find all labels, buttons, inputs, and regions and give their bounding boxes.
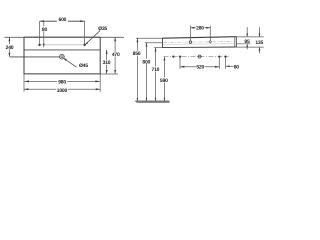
floor line: [135, 100, 169, 102]
dimension 850 text: [132, 51, 140, 56]
inner shelf line: [24, 49, 100, 51]
dimension 980 text: [57, 79, 67, 84]
dimension 95 line: [246, 27, 248, 37]
slab top edge: [163, 37, 237, 39]
top edge left extension: [5, 36, 25, 38]
fixing hole outer right: [224, 56, 226, 58]
hole diamond (front): [209, 41, 211, 44]
floor hatch line: [137, 102, 170, 104]
dimension 80 right ext: [225, 58, 227, 69]
dimension 1000 line: [24, 88, 100, 90]
leader Ø35: [85, 30, 100, 44]
hole centerline dashed: [164, 41, 235, 42]
svg-text:Ø45: Ø45: [79, 63, 88, 69]
basin right edge: [99, 37, 101, 74]
dimension 710 text: [151, 67, 159, 72]
dimension 280 left ext: [190, 26, 192, 41]
dimension 600 line: [40, 20, 85, 22]
fixing hole inner left: [179, 56, 181, 58]
dimension 240 text: [5, 44, 14, 49]
dimension 80 line: [43, 21, 45, 47]
top edge right extension: [100, 36, 124, 38]
dimension 1000 text: [56, 87, 68, 92]
basin top edge with extension lines: [24, 36, 100, 38]
dimension 310 line: [106, 50, 108, 74]
slab right edge: [235, 36, 237, 47]
dimension 600 text: [57, 17, 68, 22]
svg-text:520: 520: [196, 65, 204, 71]
drain circle: [60, 54, 65, 59]
tap hole centerline: [38, 44, 86, 46]
dimension 590 text: [160, 78, 168, 83]
dimension 590 line: [163, 57, 165, 102]
dimension 80 line + outside arrow: [226, 65, 234, 67]
dimension 800 line: [146, 43, 148, 101]
dimension 980 line: [25, 80, 100, 82]
bottom edge right extension: [100, 73, 118, 75]
ext line 95/135 top: [236, 36, 263, 38]
svg-text:1000: 1000: [57, 88, 68, 94]
tap hole left drop line: [39, 21, 41, 43]
drain symbol front: [198, 55, 201, 58]
dimension 520 left ext: [179, 58, 181, 69]
svg-text:710: 710: [152, 67, 160, 73]
dimension 280 text: [196, 25, 205, 30]
basin bottom edge with extension: [24, 73, 100, 75]
drain level line: [10, 56, 60, 58]
svg-text:280: 280: [196, 26, 204, 32]
svg-text:135: 135: [255, 40, 263, 46]
dimension 520 line: [180, 66, 219, 68]
tap hole right diamond: [83, 43, 86, 46]
leader Ø45: [64, 59, 76, 67]
dimension 135 line: [259, 27, 261, 37]
dimension 980 right ext: [99, 74, 101, 92]
fixing hole outer left: [172, 56, 174, 58]
ext line 135 bottom: [236, 46, 263, 48]
tap hole left diamond: [38, 43, 41, 46]
ext 850: [136, 37, 163, 39]
dimension 80 text: [42, 26, 48, 31]
svg-text:850: 850: [133, 51, 141, 57]
svg-text:310: 310: [103, 60, 111, 66]
svg-text:Ø35: Ø35: [98, 26, 107, 32]
svg-text:470: 470: [112, 52, 120, 58]
svg-text:590: 590: [160, 78, 168, 84]
dimension 980 left ext: [23, 74, 25, 92]
ext 710: [154, 47, 163, 49]
slab inner right edge: [234, 37, 236, 47]
dimension 520 right ext: [218, 58, 220, 69]
inner faint line: [163, 43, 235, 46]
slab left edge: [162, 38, 164, 48]
dimension 800 text: [142, 59, 150, 64]
dimension 470 line: [114, 37, 116, 74]
svg-text:80: 80: [234, 64, 240, 70]
fixing hole inner right: [218, 56, 220, 58]
dimension 310 text: [103, 60, 111, 65]
ext 800: [145, 42, 163, 44]
tap hole circle (front): [189, 41, 191, 43]
fixing centerline: [164, 56, 229, 58]
dimension 240 line: [9, 37, 11, 57]
dimension 470 text: [112, 52, 120, 57]
svg-text:800: 800: [142, 59, 150, 65]
dimension 710 line: [155, 48, 157, 102]
svg-text:80: 80: [42, 27, 48, 33]
dimension 280 line: [191, 27, 211, 29]
tap hole right drop line: [84, 21, 86, 43]
slab bottom edge: [163, 46, 237, 49]
basin left edge: [23, 37, 25, 74]
svg-text:980: 980: [58, 80, 66, 86]
dimension 280 right ext: [209, 26, 211, 41]
svg-text:95: 95: [244, 39, 250, 45]
dimension 520 text: [196, 64, 205, 69]
svg-text:240: 240: [6, 45, 14, 51]
under-rim line right: [236, 43, 250, 45]
svg-text:600: 600: [59, 17, 67, 23]
dimension 850 line: [136, 38, 138, 101]
